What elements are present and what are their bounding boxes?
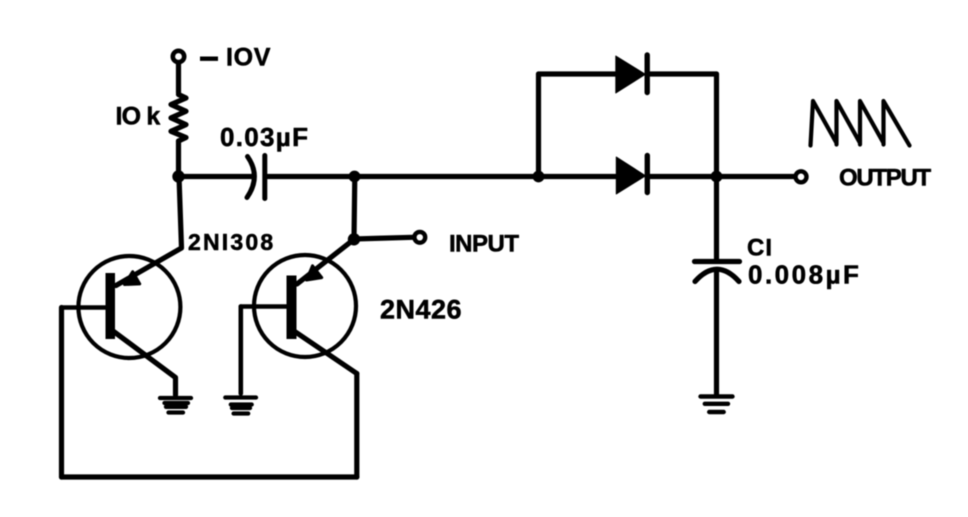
wire C2 to node B [268, 174, 355, 179]
ground below Q1 [160, 398, 191, 413]
node E input junction dot [348, 233, 360, 245]
wire feedback loop right vertical [354, 374, 359, 478]
wire node A down to Q1 emitter [116, 177, 182, 286]
transistor Q1 circle [78, 256, 180, 358]
svg-text:0.03µF: 0.03µF [220, 122, 309, 152]
transistor Q2 base bar [287, 276, 297, 340]
wire C1 to ground [714, 272, 719, 395]
wire terminal to resistor [176, 63, 181, 94]
wire D1 to loop right [647, 71, 716, 76]
svg-text:CI: CI [747, 235, 773, 262]
wire node C to diode D2 [539, 174, 617, 179]
ground below Q2 base [225, 398, 256, 414]
capacitor C2 0.03uF straight plate [262, 156, 267, 199]
terminal OUTPUT [796, 171, 807, 182]
wire resistor to node A [176, 141, 181, 177]
transistor Q1 collector lead to ground [113, 331, 176, 395]
node B junction dot [349, 171, 361, 183]
wire node D to output terminal [717, 174, 794, 179]
svg-text:IO k: IO k [116, 103, 161, 131]
capacitor C1 curved plate [695, 269, 739, 281]
diode D2 triangle [616, 157, 645, 194]
terminal INPUT [414, 232, 425, 243]
transistor Q2 base lead [241, 304, 287, 309]
diode D2 cathode bar [645, 156, 650, 193]
wire Q2 base to ground [239, 307, 244, 394]
wire diode loop top [539, 71, 617, 76]
svg-text:INPUT: INPUT [449, 231, 519, 258]
wire node B to node C [355, 174, 539, 179]
svg-text:2NI308: 2NI308 [188, 229, 275, 255]
transistor Q2 emitter arrow [307, 266, 322, 280]
wire node A to capacitor C2 [179, 174, 254, 179]
transistor Q1 base bar [106, 273, 116, 339]
wire diode loop right vertical [714, 74, 719, 177]
diode D1 cathode bar [645, 55, 650, 93]
wire D2 to node D [647, 174, 716, 179]
sawtooth waveform icon [811, 101, 910, 146]
capacitor C2 0.03uF curved plate [247, 157, 254, 198]
svg-text:IOV: IOV [226, 44, 271, 72]
node D junction dot [711, 171, 723, 183]
node C junction dot [533, 171, 545, 183]
wire diode loop left vertical [536, 74, 541, 177]
svg-text:OUTPUT: OUTPUT [839, 165, 932, 192]
terminal -10V [173, 51, 184, 62]
ground below C1 [701, 397, 733, 413]
svg-text:0.008µF: 0.008µF [748, 260, 861, 290]
transistor Q1 base lead [62, 305, 106, 310]
wire input junction to input terminal [354, 237, 413, 239]
svg-text:2N426: 2N426 [380, 295, 462, 325]
transistor Q1 emitter arrow [125, 272, 140, 285]
label -10V [200, 44, 271, 72]
wire feedback loop bottom [62, 474, 357, 479]
diode D1 triangle [616, 56, 646, 93]
resistor R1 10k [171, 95, 186, 142]
capacitor C1 straight plate [695, 259, 740, 264]
transistor Q2 collector lead [294, 331, 357, 374]
wire feedback loop left vertical [59, 308, 64, 478]
wire node B down to input junction [351, 177, 357, 240]
node A junction dot [172, 170, 184, 182]
transistor Q2 circle [254, 255, 356, 357]
wire node D down to C1 [714, 177, 719, 260]
wire input junction to Q2 emitter [297, 239, 354, 284]
